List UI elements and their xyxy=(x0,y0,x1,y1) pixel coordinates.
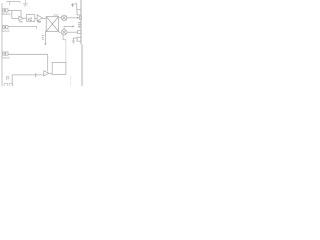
wire A3 to scope xyxy=(49,72,52,74)
wire M2 up loop with arrow xyxy=(64,26,73,29)
ground GND1 top xyxy=(23,0,28,6)
wire hybrid to mixer M1 xyxy=(59,17,62,19)
svg-text:Vosc(t): Vosc(t) xyxy=(1,56,9,60)
mixer M1 xyxy=(61,15,66,20)
wire hybrid down arrow xyxy=(45,31,47,44)
wire M2 down into scope xyxy=(63,35,66,40)
wire A2 to hybrid xyxy=(42,17,46,19)
wire left vertical border xyxy=(1,3,3,86)
port box B3 xyxy=(77,37,81,41)
wire M2 output right xyxy=(67,31,78,33)
wire from port IN3 xyxy=(8,54,48,71)
amplifier A1 xyxy=(19,16,24,20)
svg-text:Vstab(t): Vstab(t) xyxy=(1,12,11,16)
port box B1 xyxy=(77,10,81,15)
plus symbol top right xyxy=(71,3,74,7)
wire top horizontal xyxy=(6,1,19,5)
amplifier A3 xyxy=(44,71,49,76)
label A2 xyxy=(37,21,41,22)
hybrid coupler X box xyxy=(46,17,58,32)
bottom cut blocks xyxy=(4,83,12,86)
port box P2r xyxy=(78,31,81,34)
wire to ground right xyxy=(73,38,77,41)
mixer M2 xyxy=(61,30,66,35)
wire gain to A2 xyxy=(35,17,37,19)
node widget on bottom wire xyxy=(35,73,36,77)
display block light band xyxy=(81,45,83,87)
wire plus to port B1 xyxy=(74,4,76,10)
wire from port IN2 xyxy=(8,26,37,28)
dc source plus block bottom left xyxy=(6,77,9,80)
faint line bottom right xyxy=(70,76,72,87)
svg-text:x2: x2 xyxy=(28,17,33,22)
wire A1 to gain xyxy=(23,17,26,19)
display block left edge line xyxy=(80,0,82,45)
wire bottom feedback xyxy=(12,75,44,86)
label marks right xyxy=(78,21,80,24)
scope box xyxy=(52,62,66,74)
label hybrid xyxy=(53,15,58,16)
ground GND2 right xyxy=(72,41,75,43)
svg-text:Vess(t): Vess(t) xyxy=(1,29,9,33)
gain x2 xyxy=(27,15,35,22)
port IN2 xyxy=(3,26,8,29)
port IN3 xyxy=(3,52,8,55)
wire M1 output with arrow xyxy=(67,17,78,19)
wire hybrid to mixer M2 xyxy=(59,31,62,33)
wire from port IN1 xyxy=(8,10,21,18)
label A1 xyxy=(19,21,22,22)
amplifier A2 xyxy=(37,15,42,21)
port box P1r xyxy=(79,16,81,20)
label marks mid xyxy=(42,34,44,37)
port IN1 xyxy=(3,9,8,12)
